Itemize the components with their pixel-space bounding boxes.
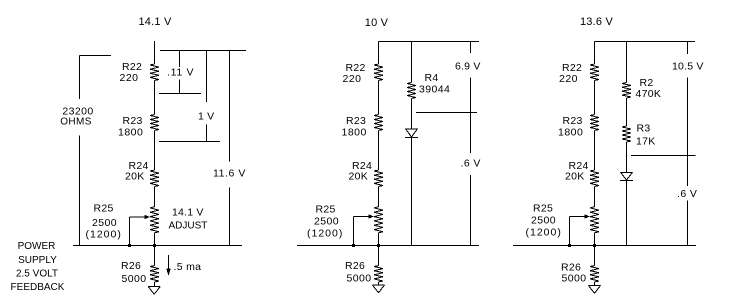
svg-text:20K: 20K	[349, 171, 369, 183]
svg-text:R23: R23	[563, 115, 583, 127]
label R24 (circuit 3)	[565, 160, 589, 183]
wire: R23 to R24 (circuit 3)	[594, 131, 596, 171]
svg-text:(1200): (1200)	[86, 229, 122, 241]
resistor R22 (circuit 2)	[374, 64, 383, 81]
bracket: 23200 ohms total (circuit 1)	[80, 56, 112, 246]
node: 14.1 V supply label (circuit 1)	[138, 16, 171, 28]
diode CR (circuit 2)	[405, 129, 418, 138]
label R23 (circuit 3)	[558, 115, 583, 139]
measurement line 1 V (circuit 1)	[206, 51, 208, 142]
resistor R26 (circuit 2)	[374, 266, 383, 283]
ground (circuit 3)	[589, 286, 601, 294]
resistor R23 (circuit 3)	[590, 115, 599, 131]
svg-text:10 V: 10 V	[365, 17, 389, 29]
wire: R23 to R24 (circuit 1)	[154, 131, 156, 171]
svg-text:220: 220	[559, 73, 578, 85]
label POWER SUPPLY 2.5 VOLT FEEDBACK	[11, 241, 65, 293]
resistor R22 (circuit 1)	[150, 64, 159, 81]
svg-text:20K: 20K	[125, 171, 145, 183]
wire: bottom rail to R26 (circuit 1)	[154, 246, 156, 266]
tick: R22/R23 junction reference (circuit 1)	[159, 93, 201, 95]
wire: R25 to bottom rail (circuit 3)	[594, 233, 596, 246]
svg-text:6.9 V: 6.9 V	[455, 61, 481, 73]
node: wiper junction dot (circuit 1)	[128, 244, 131, 247]
svg-text:470K: 470K	[636, 88, 662, 100]
wire: R25 to bottom rail (circuit 2)	[378, 233, 380, 246]
wire: diode to bottom rail (circuit 3)	[626, 181, 628, 246]
svg-text:2.5 VOLT: 2.5 VOLT	[16, 269, 58, 280]
svg-text:R26: R26	[121, 260, 141, 272]
wire: R25 wiper drop to bottom rail (circuit 3)	[569, 217, 571, 246]
measurement line 6.9 V upper (circuit 2)	[470, 42, 472, 113]
label R25 (circuit 3)	[526, 203, 562, 239]
wire: R24 to R25 (circuit 2)	[378, 187, 380, 207]
wire: circuit 1 bottom rail	[73, 245, 242, 247]
wire: top bus corner to R22 (circuit 3)	[594, 42, 596, 65]
wire: R26 to ground (circuit 2)	[378, 282, 380, 285]
wiper of R25 (circuit 3)	[570, 214, 591, 218]
wire: circuit 2 bottom rail	[297, 245, 479, 247]
svg-text:OHMS: OHMS	[60, 117, 92, 128]
diode CR (circuit 3)	[620, 173, 633, 181]
wire: R26 to ground (circuit 3)	[594, 282, 596, 286]
svg-text:2500: 2500	[531, 215, 556, 227]
wire: top bus corner to R22 (circuit 2)	[378, 42, 380, 65]
wire: R25 wiper drop to bottom rail (circuit 1)	[129, 217, 131, 246]
measurement line .6 V lower (circuit 2)	[470, 113, 472, 246]
measurement line .6 V lower (circuit 3)	[687, 156, 689, 246]
label R26 (circuit 1)	[121, 260, 146, 285]
wire: R24 to R25 (circuit 1)	[154, 187, 156, 207]
label .6 V (circuit 3)	[677, 188, 697, 200]
measurement line 10.5 V upper (circuit 3)	[687, 42, 689, 156]
svg-text:FEEDBACK: FEEDBACK	[11, 282, 65, 293]
svg-text:220: 220	[120, 72, 139, 84]
node: chain junction dot on bottom rail (circuit 3)	[593, 244, 596, 247]
svg-text:R25: R25	[533, 203, 553, 215]
svg-text:R4: R4	[425, 72, 439, 84]
svg-text:5000: 5000	[122, 273, 147, 285]
svg-text:SUPPLY: SUPPLY	[18, 255, 57, 266]
svg-text:20K: 20K	[565, 171, 585, 183]
node: wiper junction dot (circuit 3)	[568, 244, 571, 247]
label 11.6 V (circuit 1)	[213, 168, 246, 180]
svg-text:5000: 5000	[562, 273, 587, 285]
label .5 ma (circuit 1)	[174, 261, 202, 273]
svg-text:17K: 17K	[636, 136, 656, 148]
wire: circuit 3 bottom rail	[513, 245, 696, 247]
wire: R22 to R23 (circuit 2)	[378, 81, 380, 115]
wire: R23 to R24 (circuit 2)	[378, 131, 380, 171]
svg-text:.11 V: .11 V	[167, 67, 194, 79]
label R25 (circuit 1)	[86, 203, 122, 241]
svg-text:.6 V: .6 V	[461, 158, 481, 170]
wire: bottom rail to R26 (circuit 3)	[594, 246, 596, 266]
wire: 14.1V feed into circuit 1 chain	[154, 41, 156, 64]
node: chain junction dot on bottom rail (circuit 1)	[153, 244, 156, 247]
resistor R2 (circuit 3)	[622, 83, 631, 99]
node: 13.6 V supply label (circuit 3)	[580, 16, 613, 28]
svg-text:1800: 1800	[342, 127, 367, 139]
svg-text:39044: 39044	[419, 84, 450, 96]
svg-text:1800: 1800	[118, 127, 143, 139]
svg-text:POWER: POWER	[18, 241, 56, 252]
svg-text:1800: 1800	[558, 127, 583, 139]
resistor R22 (circuit 3)	[590, 64, 599, 81]
wire: top bus to R2 (circuit 3)	[626, 42, 628, 83]
wire: circuit 1 top reference rail	[160, 50, 246, 52]
wire: top bus to R4 (circuit 2)	[411, 42, 413, 83]
measurement line .11 V (circuit 1)	[179, 51, 181, 94]
current arrow .5 ma (circuit 1)	[166, 255, 170, 276]
label R26 (circuit 3)	[561, 262, 586, 285]
label 10.5 V (circuit 3)	[672, 61, 704, 73]
label R26 (circuit 2)	[345, 260, 371, 285]
label R4 39044 (circuit 2)	[419, 72, 450, 96]
svg-text:13.6 V: 13.6 V	[580, 16, 613, 28]
svg-text:R25: R25	[94, 203, 114, 215]
wire: R25 wiper drop to bottom rail (circuit 2)	[353, 217, 355, 246]
resistor R3 (circuit 3)	[622, 126, 631, 142]
svg-text:(1200): (1200)	[526, 227, 562, 239]
svg-text:14.1 V: 14.1 V	[172, 207, 204, 219]
tick: R23/R24 junction reference (circuit 1)	[159, 141, 220, 143]
svg-text:.6 V: .6 V	[677, 188, 697, 200]
label R23 (circuit 2)	[342, 115, 367, 139]
label 1 V (circuit 1)	[198, 111, 214, 123]
wire: R25 to bottom rail (circuit 1)	[154, 233, 156, 246]
svg-text:10.5 V: 10.5 V	[672, 61, 704, 73]
label R23 (circuit 1)	[118, 115, 143, 139]
wire: R24 to R25 (circuit 3)	[594, 187, 596, 207]
label 23200 OHMS	[60, 106, 93, 128]
ground (circuit 1)	[148, 287, 160, 295]
wiper of R25 (circuit 2)	[354, 214, 375, 218]
label R25 (circuit 2)	[307, 204, 343, 240]
label .6 V (circuit 2)	[461, 158, 481, 170]
label .11 V (circuit 1)	[167, 67, 194, 79]
wire: R3 to diode CR (circuit 3)	[626, 142, 628, 173]
tick: R3/diode junction reference (circuit 3)	[631, 155, 696, 157]
measurement line 11.6 V (circuit 1)	[229, 51, 231, 246]
tick: R4/diode junction reference (circuit 2)	[416, 112, 477, 114]
wire: bottom rail to R26 (circuit 2)	[378, 246, 380, 266]
wire: R22 to R23 (circuit 3)	[594, 81, 596, 115]
wire: R22 to R23 (circuit 1)	[154, 81, 156, 115]
label R24 (circuit 1)	[125, 160, 149, 183]
wire: R4 to diode CR (circuit 2)	[411, 99, 413, 130]
node: chain junction dot on bottom rail (circuit 2)	[377, 244, 380, 247]
svg-text:(1200): (1200)	[307, 228, 343, 240]
resistor R24 (circuit 3)	[590, 170, 599, 187]
svg-text:1 V: 1 V	[198, 111, 214, 123]
svg-text:14.1 V: 14.1 V	[138, 16, 171, 28]
potentiometer R25 (circuit 1)	[150, 207, 159, 233]
svg-text:R26: R26	[345, 260, 365, 272]
svg-text:2500: 2500	[92, 217, 117, 229]
wiper of R25 (circuit 1)	[130, 215, 151, 219]
svg-text:ADJUST: ADJUST	[169, 221, 208, 232]
label R3 17K (circuit 3)	[636, 123, 656, 148]
ground (circuit 2)	[373, 285, 385, 293]
label 14.1 V ADJUST (circuit 1)	[169, 207, 208, 232]
label R24 (circuit 2)	[349, 160, 373, 183]
wire: circuit 2 top bus	[379, 41, 480, 43]
label 6.9 V (circuit 2)	[455, 61, 481, 73]
potentiometer R25 (circuit 3)	[590, 207, 599, 233]
svg-text:R23: R23	[123, 115, 143, 127]
resistor R24 (circuit 1)	[150, 170, 159, 187]
wire: diode to bottom rail (circuit 2)	[411, 138, 413, 246]
wire: R26 to ground (circuit 1)	[154, 282, 156, 287]
svg-text:R25: R25	[316, 204, 336, 216]
label R22 (circuit 1)	[120, 61, 143, 84]
svg-text:R23: R23	[346, 115, 366, 127]
svg-text:5000: 5000	[347, 273, 372, 285]
svg-text:.5 ma: .5 ma	[174, 261, 202, 273]
wire: circuit 3 top bus	[595, 41, 696, 43]
resistor R23 (circuit 2)	[374, 115, 383, 131]
label R2 470K (circuit 3)	[636, 77, 662, 100]
resistor R24 (circuit 2)	[374, 170, 383, 187]
node: wiper junction dot (circuit 2)	[352, 244, 355, 247]
label R22 (circuit 3)	[559, 62, 582, 85]
svg-text:220: 220	[343, 73, 362, 85]
svg-text:2500: 2500	[314, 216, 339, 228]
wire: R2 to R3 (circuit 3)	[626, 98, 628, 126]
label R22 (circuit 2)	[343, 62, 366, 85]
node: 10 V supply label (circuit 2)	[365, 17, 389, 29]
svg-text:11.6 V: 11.6 V	[213, 168, 246, 180]
resistor R23 (circuit 1)	[150, 115, 159, 131]
resistor R26 (circuit 3)	[590, 266, 599, 283]
potentiometer R25 (circuit 2)	[374, 207, 383, 233]
resistor R4 (circuit 2)	[407, 83, 416, 99]
svg-text:R3: R3	[637, 123, 651, 135]
resistor R26 (circuit 1)	[150, 266, 159, 283]
